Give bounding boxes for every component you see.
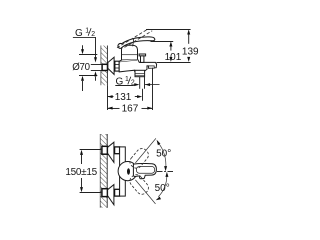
dimension 139 bbox=[146, 29, 199, 62]
lever lower view bbox=[133, 163, 156, 178]
wall upper view bbox=[101, 46, 108, 86]
escutcheon cone top lower view bbox=[108, 142, 114, 162]
dashed lever rotated up bbox=[128, 146, 151, 170]
svg-text:131: 131 bbox=[115, 92, 132, 103]
cartridge dome bbox=[122, 45, 138, 59]
dimension 167 bbox=[108, 103, 153, 114]
aerator lip bbox=[149, 66, 155, 68]
diagonal centerline down bbox=[135, 180, 155, 204]
G 1/2 pipe arrow lower bbox=[94, 71, 97, 81]
faucet body lower view bbox=[120, 147, 126, 196]
diagonal centerline up bbox=[135, 138, 156, 163]
inlet nut top lower view bbox=[115, 147, 120, 154]
dimension 131 bbox=[108, 92, 143, 103]
escutcheon cone upper view bbox=[108, 57, 114, 74]
faucet body upper view bbox=[119, 59, 156, 72]
escutcheon cone bottom lower view bbox=[108, 185, 114, 205]
handle lever upper view bbox=[118, 37, 155, 48]
dimension D70 bbox=[72, 45, 97, 91]
svg-text:Ø70: Ø70 bbox=[72, 62, 90, 73]
angle arc up bbox=[156, 140, 171, 171]
lever slot bbox=[127, 168, 130, 175]
angle arc down bbox=[155, 172, 170, 200]
union nut upper view bbox=[102, 64, 107, 70]
union nut top lower view bbox=[102, 146, 108, 154]
svg-text:150±15: 150±15 bbox=[65, 167, 97, 178]
label G 1/2 top bbox=[73, 27, 97, 62]
outlet axis extension line bbox=[142, 89, 144, 101]
svg-text:50°: 50° bbox=[155, 183, 170, 194]
union nut bottom lower view bbox=[102, 189, 108, 197]
svg-text:101: 101 bbox=[165, 52, 182, 63]
wall lower view bbox=[100, 134, 107, 208]
horizontal centerline bbox=[157, 171, 175, 173]
svg-text:139: 139 bbox=[182, 46, 199, 57]
connection nut 2 upper view bbox=[115, 61, 119, 71]
outlet tube bbox=[140, 77, 145, 89]
svg-text:167: 167 bbox=[122, 103, 139, 114]
raised lever dashed bbox=[117, 29, 152, 48]
shower outlet block bbox=[135, 70, 145, 76]
wall face extension line bbox=[107, 85, 109, 110]
svg-text:50°: 50° bbox=[156, 148, 171, 159]
spout axis extension line bbox=[152, 68, 154, 110]
dimension 101 bbox=[151, 41, 191, 62]
diverter knob bbox=[139, 54, 146, 62]
inlet pipe stub bbox=[91, 64, 102, 70]
dimension 150+-15 bbox=[65, 150, 102, 193]
cartridge dome lower view bbox=[118, 162, 137, 181]
label G 1/2 bottom bbox=[115, 76, 159, 88]
svg-text:G: G bbox=[116, 77, 124, 88]
dashed lever rotated down bbox=[128, 172, 151, 196]
inlet nut bottom lower view bbox=[115, 189, 120, 196]
